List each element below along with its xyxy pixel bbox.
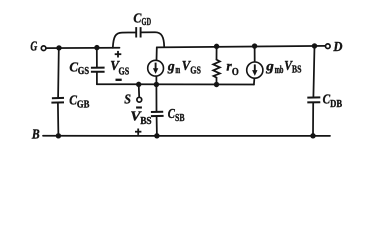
node dot gate/C_GS junction bbox=[94, 45, 99, 50]
svg-text:BS: BS bbox=[292, 65, 302, 76]
capacitor C_GB plates bbox=[52, 97, 64, 99]
wire B bottom rail bbox=[43, 135, 330, 137]
wire gm source column bottom bbox=[155, 76, 157, 84]
wire gate rail from G terminal bbox=[46, 47, 120, 49]
capacitor C_GS plates bbox=[91, 67, 105, 69]
svg-text:m: m bbox=[175, 65, 180, 76]
svg-text:DB: DB bbox=[330, 99, 342, 110]
svg-text:g: g bbox=[265, 59, 274, 74]
wire C_SB column bottom bbox=[156, 117, 158, 136]
node dot gate/C_GB junction bbox=[56, 45, 61, 50]
svg-text:D: D bbox=[332, 39, 342, 54]
wire C_GB column bottom bbox=[57, 104, 60, 136]
capacitor C_GD plates bbox=[135, 27, 137, 37]
wire C_SB column top bbox=[155, 85, 157, 111]
capacitor C_DB plates bbox=[307, 96, 320, 98]
node dot drain/rO junction bbox=[214, 44, 219, 49]
minus sign Vbs below S bbox=[136, 106, 142, 108]
wire C_GD bridge left curve bbox=[113, 33, 135, 48]
wire gm source column top bbox=[156, 47, 158, 60]
svg-text:g: g bbox=[167, 58, 175, 73]
wire rO column top bbox=[216, 46, 218, 59]
node dot B/C_DB junction bbox=[310, 133, 315, 138]
plus sign Vgs bbox=[115, 53, 122, 55]
node dot source/S junction bbox=[136, 82, 141, 87]
resistor rO zigzag bbox=[213, 60, 220, 78]
terminal S open circle bbox=[137, 97, 142, 102]
node dot B/C_GB junction bbox=[56, 133, 61, 138]
plus sign Vbs bbox=[135, 131, 141, 133]
wire C_GS column top bbox=[96, 48, 98, 67]
wire C_DB column top bbox=[313, 46, 314, 97]
node dot drain/gmb junction bbox=[252, 43, 257, 48]
wire S terminal stub bbox=[138, 84, 141, 97]
current source gmb*Vbs U2 bbox=[247, 62, 263, 78]
svg-text:S: S bbox=[124, 91, 131, 106]
wire source rail bbox=[97, 83, 254, 85]
svg-text:GD: GD bbox=[142, 17, 152, 28]
svg-text:BS: BS bbox=[140, 116, 152, 127]
wire gmb column bottom corner bbox=[253, 78, 256, 84]
wire C_GS column bottom bbox=[96, 73, 98, 85]
svg-text:G: G bbox=[30, 38, 37, 53]
svg-text:GS: GS bbox=[190, 66, 201, 77]
wire gmb column top bbox=[254, 46, 256, 62]
svg-text:GS: GS bbox=[78, 66, 90, 77]
terminal G open circle bbox=[41, 46, 46, 51]
node dot source/gm/C_SB junction bbox=[154, 82, 159, 87]
wire rO column bottom bbox=[216, 78, 218, 85]
svg-text:B: B bbox=[31, 127, 40, 142]
capacitor C_SB plates bbox=[151, 111, 163, 113]
svg-text:SB: SB bbox=[175, 113, 185, 124]
terminal D open circle bbox=[326, 44, 331, 49]
minus sign Vgs bbox=[116, 79, 122, 81]
wire C_GB column top bbox=[57, 48, 60, 97]
node dot B/C_SB junction bbox=[154, 133, 159, 138]
current source gm*Vgs U1 bbox=[148, 60, 164, 76]
svg-text:GB: GB bbox=[77, 100, 90, 111]
node dot source/rO junction bbox=[214, 82, 219, 87]
wire drain top rail bbox=[157, 46, 326, 47]
wire C_DB column bottom bbox=[312, 103, 314, 135]
node dot drain/C_DB junction bbox=[312, 43, 317, 48]
svg-text:GS: GS bbox=[119, 66, 130, 77]
wire C_GD bridge right curve bbox=[142, 32, 165, 46]
svg-text:mb: mb bbox=[275, 65, 284, 76]
svg-text:O: O bbox=[232, 67, 239, 78]
